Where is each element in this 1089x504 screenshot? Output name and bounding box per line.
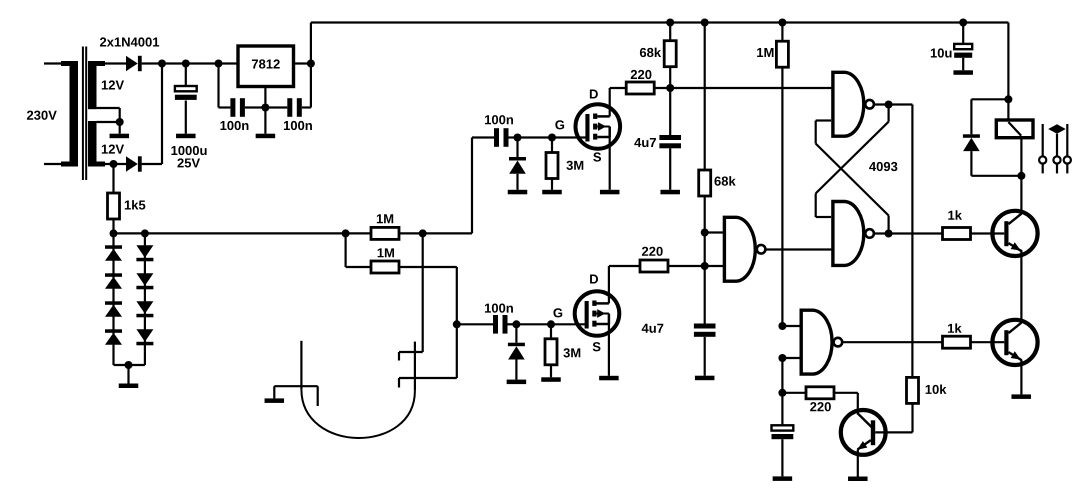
resistor 68k lower bbox=[704, 196, 706, 266]
node: IC1c output junction bbox=[885, 230, 893, 238]
wire: IC1b output bbox=[874, 103, 913, 105]
wire: upper secondary to diode D1 bbox=[105, 62, 126, 64]
wire: +12V vertical riser bbox=[310, 23, 312, 108]
label D upper bbox=[590, 90, 598, 99]
label 25V bbox=[177, 158, 183, 167]
capacitor 1000u 25V bbox=[185, 64, 187, 87]
diode D9 bbox=[136, 301, 153, 314]
node: rail junction 68k lower bbox=[701, 19, 709, 27]
wire: rail right end down to relay bbox=[1007, 23, 1009, 121]
transistor Q3 discharge bbox=[841, 410, 886, 455]
ground: Q2 emitter bbox=[1011, 394, 1030, 399]
resistor 1k5 bbox=[112, 164, 114, 193]
node: rail junction 10u bbox=[959, 19, 967, 27]
label 100n upper gate bbox=[485, 115, 491, 124]
label 4u7 lower bbox=[642, 324, 649, 333]
ground: 4u7 lower bbox=[695, 376, 715, 381]
nand gate IC1a 4093 bbox=[724, 217, 755, 281]
node: 100n left junction bbox=[215, 60, 223, 68]
capacitor 10u bbox=[962, 23, 964, 44]
label G upper bbox=[555, 120, 564, 129]
resistor 220 discharge bbox=[782, 392, 806, 394]
label G lower bbox=[553, 308, 562, 317]
diode D7 bbox=[136, 245, 153, 257]
diode D13 flyback bbox=[970, 99, 972, 134]
wire: Q2 emitter to ground bbox=[1020, 360, 1022, 394]
resistor 68k upper bbox=[669, 67, 671, 89]
ground: 10u bbox=[953, 70, 973, 75]
wire: to lower gate bbox=[516, 323, 585, 325]
capacitor 100n lower gate bbox=[457, 323, 493, 325]
node: rail junction 68k bbox=[666, 19, 674, 27]
wire: IC1c output to driver bbox=[874, 232, 943, 234]
label 3M upper bbox=[566, 161, 572, 170]
node: upper drain node bbox=[666, 84, 674, 92]
label 4u7 upper bbox=[634, 138, 641, 147]
diode D3 bbox=[105, 245, 122, 249]
label 68k lower bbox=[714, 177, 720, 186]
wire: IC1b output down to 10k bbox=[911, 105, 913, 378]
relay contact common armature bbox=[1048, 124, 1066, 134]
node: upper gate diode junction bbox=[514, 134, 522, 142]
wire: sense bus horizontal bbox=[114, 232, 346, 234]
transformer TR1 12V secondary winding lower bbox=[88, 121, 97, 167]
sensor tube U bend bbox=[301, 389, 415, 438]
diode D8 bbox=[136, 273, 153, 286]
node: 1M pair right junction bbox=[419, 229, 427, 237]
capacitor 4u7 lower bbox=[704, 266, 706, 324]
capacitor timing electrolytic bbox=[772, 425, 794, 430]
ground: 1000u bbox=[176, 134, 196, 139]
node: 1000u junction bbox=[182, 60, 190, 68]
wire: flyback branch top bbox=[971, 98, 1008, 100]
label 4093 bbox=[869, 162, 876, 171]
label 1M upper bbox=[377, 214, 383, 223]
node: diode chain left top bbox=[110, 229, 118, 237]
resistor 1M timing bbox=[781, 23, 783, 42]
label 100n right bbox=[284, 121, 290, 130]
node: IC1b output junction bbox=[885, 101, 893, 109]
wire: +12V top rail bbox=[311, 21, 1009, 23]
node: IC1d input lower bbox=[778, 354, 786, 362]
label S lower bbox=[593, 342, 601, 351]
wire: T1 drain bbox=[609, 88, 611, 116]
diode D4 bbox=[105, 273, 122, 277]
wire: T2 drain bbox=[608, 266, 610, 303]
wire: IC1a output bbox=[765, 248, 832, 250]
node: 1M pair left junction bbox=[342, 229, 350, 237]
diode D2 1N4001 bbox=[126, 156, 138, 171]
node: relay bottom junction bbox=[1017, 172, 1025, 180]
node: lower 3M junction bbox=[547, 320, 555, 328]
label 10u bbox=[931, 49, 937, 58]
wire: rectified rail to 7812 input bbox=[162, 62, 238, 64]
node: diode chain right top bbox=[141, 229, 149, 237]
resistor 220 lower drain bbox=[640, 260, 668, 272]
wire: D2 cathode up to rectified node bbox=[142, 163, 162, 165]
wire: Q3 emitter to ground bbox=[857, 450, 859, 477]
nand gate IC1a inputs bbox=[705, 231, 725, 233]
wire: T1 source to ground bbox=[609, 137, 611, 190]
wire: Q3 base from 10k bbox=[875, 431, 912, 433]
ground: diode chains bbox=[127, 365, 129, 384]
label S upper bbox=[593, 152, 601, 161]
node: IC1a input upper bbox=[701, 229, 709, 237]
nand gate IC1d inputs bbox=[782, 325, 803, 327]
wire: mains input bottom lead bbox=[44, 163, 62, 165]
ground: T2 source bbox=[599, 376, 619, 381]
ground: 3M lower bbox=[541, 377, 561, 382]
node: lower drain node bbox=[701, 262, 709, 270]
nand gate IC1d 4093 bbox=[801, 310, 832, 374]
label 100n left bbox=[220, 121, 226, 130]
relay contact pole 1 bbox=[1042, 124, 1044, 157]
wire: flip-flop cross coupling upper to lower bbox=[887, 105, 889, 122]
wire: relay coil bottom pin bbox=[1020, 138, 1022, 176]
wire: upper drain node to flip-flop set input bbox=[670, 87, 833, 89]
wire: upper sensor electrode tick bbox=[399, 351, 423, 353]
label 220 lower bbox=[642, 247, 648, 256]
resistor 3M upper bbox=[551, 138, 553, 153]
wire: 7812 ground pin bbox=[264, 86, 266, 108]
label 1M timing bbox=[757, 48, 763, 57]
wire: diode chains bottom join bbox=[114, 364, 145, 366]
resistor 1M lower of pair bbox=[345, 233, 347, 267]
wire: Q3 collector bbox=[857, 393, 859, 415]
wire: upper sensor electrode drop bbox=[422, 233, 424, 352]
transformer TR1 core bbox=[82, 47, 84, 181]
ground: centre tap bbox=[110, 134, 130, 139]
node: upper 3M junction bbox=[548, 134, 556, 142]
label 10k bbox=[926, 385, 932, 394]
wire: IC1d output bbox=[842, 341, 942, 343]
capacitor 100n output right bbox=[265, 106, 287, 108]
wire: timing node down bbox=[781, 358, 783, 425]
diode D6 bbox=[105, 329, 122, 333]
MOSFET T1 bbox=[576, 104, 621, 149]
wire: 7812 output bbox=[294, 62, 311, 64]
nand gate IC1b flip-flop upper 4093 bbox=[833, 72, 864, 136]
transformer TR1 230V primary winding bbox=[61, 61, 70, 66]
label 3M lower bbox=[563, 348, 569, 357]
node: centre tap junction bbox=[116, 118, 124, 126]
transformer TR1 12V secondary winding upper bbox=[88, 61, 97, 109]
diode D12 lower gate clamp bbox=[515, 324, 517, 342]
resistor 10k bbox=[907, 377, 919, 403]
ground: left sensor electrode bbox=[265, 398, 285, 403]
label 1k upper bbox=[948, 211, 954, 220]
node: diode chains bottom junction bbox=[125, 361, 133, 369]
ground: upper gate clamp bbox=[508, 190, 528, 195]
wire: mains input top lead bbox=[44, 62, 62, 64]
transistor Q1 bbox=[992, 211, 1037, 256]
wire: D1 cathode to node bbox=[142, 62, 163, 64]
wire: Q1 emitter to Q2 collector bbox=[1020, 251, 1022, 324]
sensor tube left wall bbox=[300, 341, 302, 390]
nand gate IC1c flip-flop lower 4093 bbox=[833, 202, 864, 266]
IC2 7812 regulator bbox=[238, 46, 294, 87]
node: 7812 ground junction bbox=[261, 104, 269, 112]
node: timing RC junction bbox=[778, 389, 786, 397]
node: lower gate RC junction bbox=[453, 320, 461, 328]
label 1k5 bbox=[125, 201, 131, 210]
ground: 3M upper bbox=[542, 190, 562, 195]
node: IC1d input upper bbox=[778, 322, 786, 330]
capacitor 100n upper gate bbox=[494, 128, 499, 147]
resistor 1M upper of pair bbox=[346, 232, 371, 234]
node: rail junction 1M bbox=[778, 19, 786, 27]
wire: lower sensor electrode drop bbox=[456, 267, 458, 378]
wire: lower sensor electrode tick bbox=[399, 377, 457, 379]
wire: upper channel to gate RC bbox=[423, 232, 472, 234]
node: rectified supply junction bbox=[158, 60, 166, 68]
label 1000u bbox=[171, 146, 177, 155]
label 220 discharge bbox=[810, 402, 816, 411]
label 12V lower bbox=[102, 145, 108, 154]
wire: clipping diode chain left stem bbox=[112, 233, 114, 365]
resistor 1k upper driver bbox=[943, 228, 971, 240]
label 1k lower bbox=[948, 324, 954, 333]
label 68k upper bbox=[640, 48, 646, 57]
label 12V upper bbox=[102, 81, 108, 90]
node: 1k5 branch junction bbox=[110, 160, 118, 168]
resistor 1k lower driver bbox=[943, 336, 971, 348]
ground: timing capacitor bbox=[773, 476, 793, 481]
diode D11 upper gate clamp bbox=[516, 138, 518, 158]
resistor 3M lower bbox=[550, 324, 552, 339]
label 230V bbox=[27, 111, 33, 120]
capacitor 4u7 upper bbox=[669, 88, 671, 135]
node: lower gate diode junction bbox=[512, 320, 520, 328]
transistor Q2 bbox=[992, 320, 1037, 365]
sensor tube right wall bbox=[414, 342, 416, 391]
ground: T1 source bbox=[600, 190, 620, 195]
label 2x1N4001 bbox=[100, 37, 106, 46]
capacitor 100n input left bbox=[217, 64, 219, 108]
ground: Q3 emitter bbox=[848, 477, 868, 482]
label 220 upper bbox=[631, 70, 637, 79]
diode D10 bbox=[136, 329, 153, 342]
wire: to upper gate bbox=[518, 136, 586, 138]
wire: lower secondary to diode D2 bbox=[105, 163, 126, 165]
diode D1 1N4001 bbox=[126, 56, 138, 71]
label D lower bbox=[590, 275, 598, 284]
wire: flip-flop cross coupling lower to upper bbox=[887, 216, 889, 234]
wire: left sensor electrode bbox=[273, 386, 275, 398]
ground: 4u7 upper bbox=[660, 190, 680, 195]
wire: clipping diode chain right stem bbox=[144, 233, 146, 365]
wire: flyback branch bottom bbox=[971, 175, 1021, 177]
label 7812 bbox=[252, 60, 258, 69]
resistor 220 upper drain bbox=[626, 82, 654, 94]
ground: lower gate clamp bbox=[507, 380, 527, 385]
wire: secondary centre tap bbox=[97, 107, 120, 109]
relay contact pole 2 bbox=[1066, 124, 1068, 157]
label 1M lower bbox=[378, 248, 384, 257]
MOSFET T2 bbox=[575, 291, 620, 336]
node: 7812 output junction bbox=[307, 60, 315, 68]
node: relay top junction bbox=[1004, 95, 1012, 103]
relay RE1 coil bbox=[996, 120, 1033, 138]
wire: T2 source to ground bbox=[608, 324, 610, 376]
wire: Q1 collector to relay bbox=[1020, 176, 1022, 214]
label 100n lower gate bbox=[485, 304, 491, 313]
diode D5 bbox=[105, 301, 122, 305]
ground: 7812 bbox=[264, 108, 266, 134]
